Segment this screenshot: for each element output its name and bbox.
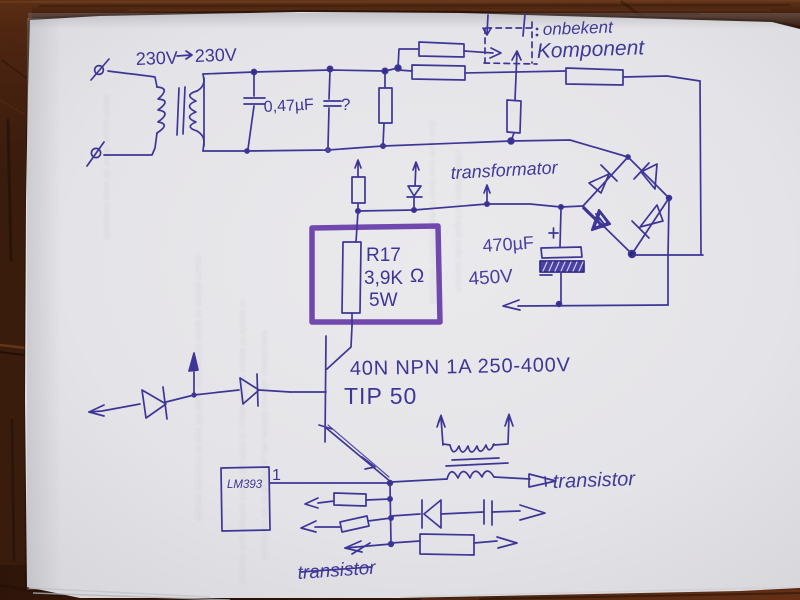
- wire branch to R4: [398, 70, 412, 71]
- wire secondary to top rail: [197, 74, 204, 91]
- schematic ink: [87, 14, 703, 584]
- diode D1 (points down, arrow above): [413, 162, 419, 186]
- node branch 1: [388, 497, 392, 501]
- wire secondary to bottom rail: [197, 131, 204, 151]
- arrow above R7: [355, 160, 361, 177]
- label ?: [341, 95, 350, 114]
- wire U1 to bus node: [270, 482, 390, 484]
- electrolytic capacitor C3: [560, 209, 561, 247]
- node with up arrow: [192, 393, 196, 397]
- wire bridge right vertex down: [668, 199, 669, 305]
- arrow up inside dashed box: [512, 51, 521, 100]
- bridge rectifier outline: [583, 157, 669, 254]
- svg-text:onbekent: onbekent: [542, 18, 614, 39]
- resistor R3 (horizontal upper): [419, 42, 464, 57]
- wire branch 1: [366, 499, 390, 500]
- arrowhead R10: [497, 537, 517, 548]
- transistor Q1 collector: [327, 326, 352, 369]
- marker box (thick purple) around R17: [312, 226, 440, 322]
- bridge vertex nodes: [626, 155, 630, 159]
- node R6 bottom on mid rail: [508, 138, 514, 144]
- label transistor (bottom): [297, 558, 377, 584]
- node D1 bottom: [412, 208, 416, 212]
- resistor R5 (horizontal right): [566, 68, 623, 85]
- resistor R10: [420, 534, 474, 555]
- svg-text:ipsum dolore sit amet consecte: ipsum dolore sit amet consectetur adipi …: [194, 255, 204, 522]
- node top rail branch: [395, 65, 401, 71]
- mid rail wire: [203, 140, 628, 157]
- under-sheet edges bottom-left: [29, 588, 210, 597]
- bridge diode D2 (top-left arm): [589, 165, 617, 193]
- wire right rail vertical: [700, 81, 701, 254]
- ghost show-through text: [102, 95, 464, 583]
- resistor R8: [334, 493, 366, 506]
- bridge diode D3 (top-right arm): [634, 163, 657, 189]
- wire bus to inductor L1: [391, 479, 447, 482]
- svg-text:230V: 230V: [135, 48, 178, 69]
- svg-text:230V: 230V: [194, 45, 237, 66]
- wire bus to diode D8: [391, 514, 420, 516]
- capacitor C2: [324, 71, 341, 147]
- wire branch up to R3: [398, 49, 419, 68]
- wire R17 to transistor collector: [351, 313, 353, 326]
- resistor R4 (horizontal lower): [412, 65, 465, 80]
- svg-text:ut labore et dolore magna aliq: ut labore et dolore magna aliqua ut enim…: [238, 300, 248, 583]
- wire D8 to capacitor C4: [441, 512, 483, 514]
- svg-text:3,9K: 3,9K: [364, 268, 403, 289]
- label 40N NPN 1A 250-400V: [350, 354, 571, 380]
- wire top rail: [203, 68, 398, 74]
- tick marks above dashed box: [483, 15, 491, 35]
- diode D7: [240, 374, 259, 406]
- wire D7 to base: [259, 390, 290, 392]
- svg-text:?: ?: [341, 95, 350, 114]
- wire R10 to arrow: [474, 541, 497, 543]
- arrowhead right (transistor): [529, 474, 556, 487]
- bus vertical wire: [390, 483, 391, 545]
- label transistor (right): [552, 468, 636, 493]
- core lines between windings: [446, 458, 508, 466]
- wire branch 2: [368, 518, 391, 521]
- transformer TR1 core: [177, 87, 185, 135]
- node arrow transformator: [485, 202, 489, 206]
- arrow up (transformator): [484, 185, 490, 203]
- resistor R6 (vertical under dashed box): [507, 100, 521, 141]
- wire node to diode D7: [194, 390, 239, 395]
- label 230V -> 230V: [135, 45, 237, 69]
- arrowhead into dashed box: [490, 48, 501, 58]
- resistor R9 (slanted): [340, 516, 369, 532]
- inductor L1 (lower winding): [447, 471, 494, 479]
- wire secondary vertical: [203, 78, 205, 146]
- node second rail left: [356, 209, 360, 213]
- label transformator: [450, 157, 559, 183]
- svg-text:0,47µF: 0,47µF: [263, 96, 314, 116]
- arrow up at node: [193, 372, 195, 394]
- pin 1 label: [272, 467, 281, 484]
- svg-text:1: 1: [272, 467, 281, 484]
- arrowhead branch 2: [301, 521, 316, 532]
- resistor R2 (vertical under top rail): [379, 73, 392, 146]
- wire to diode D6: [89, 404, 140, 412]
- right lead of L2 with arrow: [494, 415, 513, 445]
- svg-text:5W: 5W: [369, 290, 398, 311]
- svg-text:Komponent: Komponent: [536, 36, 645, 63]
- diode D8: [422, 500, 441, 528]
- wire bridge bottom to right rail: [633, 254, 703, 256]
- colon: [536, 28, 539, 37]
- wire R4 to R5: [465, 71, 565, 73]
- transistor Q1 body bar: [325, 336, 326, 442]
- paper edge shading: [27, 18, 61, 590]
- label 0,47uF: [263, 96, 314, 116]
- IC U1 LM393: [221, 467, 270, 531]
- label 470uF 450V: [468, 232, 535, 290]
- left lead of L2 with arrow: [437, 416, 445, 445]
- svg-text:lorem ipsum dolor sit amet con: lorem ipsum dolor sit amet consecte: [102, 95, 112, 239]
- svg-text:TIP 50: TIP 50: [344, 383, 417, 409]
- wire primary bottom lead: [104, 133, 157, 155]
- svg-text:R17: R17: [366, 245, 401, 266]
- emitter arrowhead: [362, 457, 375, 469]
- bridge diode D4 (bottom-left arm, heavy ink): [592, 210, 610, 230]
- transformer TR1 secondary winding: [190, 91, 198, 131]
- node cap top: [559, 205, 563, 209]
- svg-text:40N NPN 1A 250-400V: 40N NPN 1A 250-400V: [350, 354, 571, 380]
- wood/paper boundary shadow: [30, 11, 800, 27]
- strike line through label: [300, 567, 371, 572]
- second rail wire: [358, 204, 583, 211]
- transformer TR1 primary winding: [157, 87, 165, 133]
- dashed box unknown component: [484, 22, 537, 64]
- inductor L2 (upper winding): [443, 444, 494, 452]
- arrowhead branch 1: [305, 498, 318, 508]
- arrowhead far left: [89, 405, 104, 416]
- capacitor C4: [484, 500, 492, 525]
- wire R3 to arrow: [464, 51, 493, 53]
- node top rail / C2: [327, 66, 332, 71]
- svg-text:exercitation ullamco laboris n: exercitation ullamco laboris nisi ut ali…: [260, 330, 270, 560]
- svg-text:LM393: LM393: [227, 479, 263, 491]
- wire bottom with left arrow: [518, 305, 668, 306]
- svg-text:transistor: transistor: [552, 468, 636, 493]
- wire into R17: [356, 211, 358, 242]
- wire R5 to right rail: [623, 76, 700, 81]
- svg-text:Ω: Ω: [410, 266, 424, 287]
- label onbekent: [536, 18, 645, 63]
- node cap bottom: [557, 302, 562, 307]
- svg-text:470µF: 470µF: [482, 232, 535, 256]
- wire R9 to arrow: [315, 526, 340, 528]
- wire C4 to arrow: [492, 511, 520, 512]
- resistor R7 (vertical with arrow, on second rail): [352, 177, 365, 209]
- wire D6 to node: [166, 395, 194, 402]
- terminal P2 (mains input bottom): [87, 142, 104, 166]
- node R2 bottom: [381, 144, 385, 148]
- node top rail / C1: [252, 70, 257, 75]
- wire bus to resistor R10: [391, 541, 420, 543]
- diode D6: [142, 387, 167, 419]
- wire branch 3 with arrow: [345, 544, 391, 548]
- label TIP 50: [344, 383, 417, 409]
- terminal P1 (mains input top): [91, 59, 109, 80]
- arrowhead right branch: [520, 505, 545, 520]
- resistor R17: [342, 242, 361, 313]
- node top rail / R2: [382, 68, 387, 73]
- svg-text:450V: 450V: [468, 266, 514, 290]
- wire L1 to arrow: [494, 477, 530, 479]
- bridge diode D5 (bottom-right arm): [632, 205, 663, 238]
- node branch 3: [389, 542, 394, 547]
- wire base: [290, 391, 326, 393]
- node C2 bottom (open): [326, 148, 330, 152]
- node C1 bottom: [245, 149, 249, 153]
- capacitor C1 0.47uF: [244, 74, 265, 149]
- labels R17 3.9K 5W: [364, 245, 424, 311]
- bus node main: [388, 481, 393, 486]
- arrowhead left: [503, 300, 520, 310]
- node branch 2: [389, 516, 393, 520]
- transistor Q1 emitter: [325, 427, 391, 482]
- wire P1 to transformer primary: [108, 71, 157, 87]
- wire R8 to arrow: [318, 501, 334, 503]
